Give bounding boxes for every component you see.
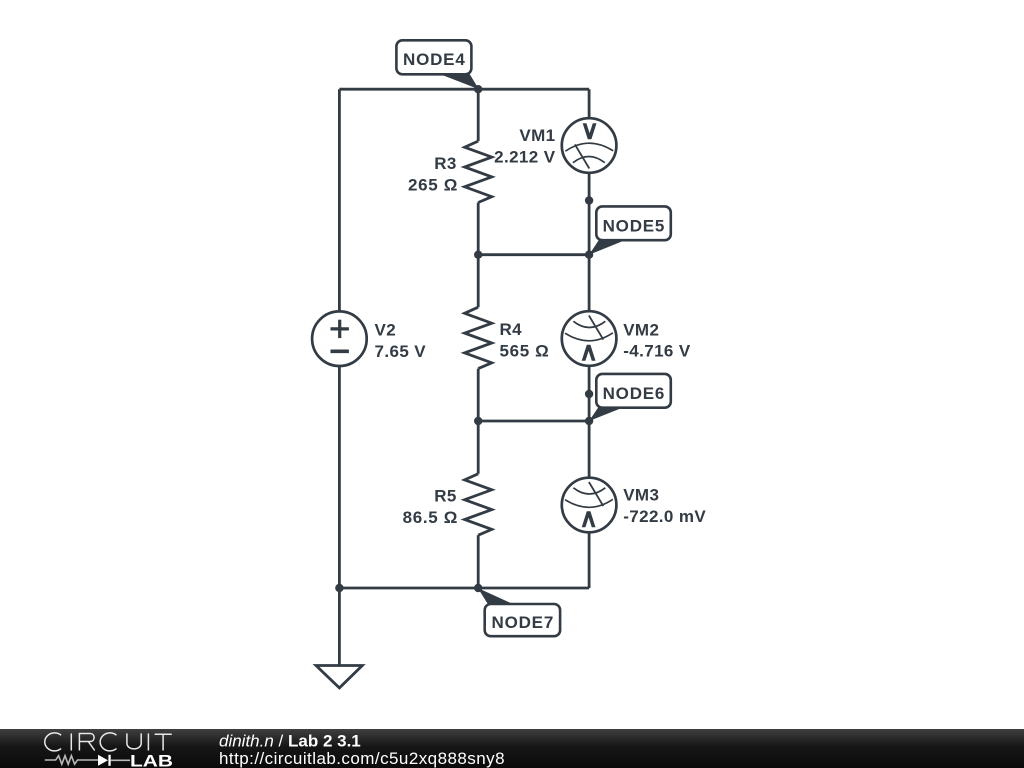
node label NODE7 [478, 588, 560, 636]
wire resistor column bottom segment [477, 535, 480, 588]
voltmeter VM3 [562, 478, 707, 533]
voltage source V2 [312, 311, 426, 366]
svg-text:NODE7: NODE7 [492, 613, 555, 632]
node label NODE4 [396, 40, 479, 89]
svg-text:VM2: VM2 [623, 320, 659, 339]
wire resistor column lower segment [477, 369, 480, 474]
junction dot NODE7 left [335, 584, 343, 592]
svg-text:86.5 Ω: 86.5 Ω [403, 508, 458, 527]
svg-text:2.212 V: 2.212 V [494, 147, 556, 166]
svg-text:V2: V2 [375, 321, 397, 340]
svg-text:265 Ω: 265 Ω [408, 175, 458, 194]
svg-text:R5: R5 [434, 487, 457, 506]
svg-text:http://circuitlab.com/c5u2xq88: http://circuitlab.com/c5u2xq888sny8 [219, 749, 505, 768]
svg-text:-4.716 V: -4.716 V [623, 342, 691, 361]
CircuitLab logo resistor-diode glyph [45, 755, 130, 766]
node label NODE5 [589, 206, 671, 254]
svg-text:-722.0 mV: -722.0 mV [623, 507, 706, 526]
resistor R4 [465, 307, 550, 368]
svg-text:VM1: VM1 [519, 126, 555, 145]
CircuitLab logo CIRCUIT text [45, 733, 172, 751]
svg-text:VM3: VM3 [623, 485, 659, 504]
wire top horizontal NODE4 [339, 88, 589, 91]
junction dot NODE5 right [585, 251, 593, 259]
node label NODE6 [589, 374, 671, 421]
svg-text:R4: R4 [500, 320, 523, 339]
junction dot NODE6 left [474, 417, 482, 425]
wire resistor column middle segment [477, 203, 480, 308]
svg-text:NODE6: NODE6 [603, 384, 666, 403]
wire resistor column upper segment [477, 89, 480, 141]
footer bar [0, 729, 1024, 768]
svg-text:565 Ω: 565 Ω [500, 342, 550, 361]
svg-text:NODE5: NODE5 [603, 216, 666, 235]
resistor R5 [403, 474, 492, 535]
wire NODE6 horizontal [478, 420, 589, 423]
junction dot NODE7 mid [474, 584, 482, 592]
svg-text:7.65 V: 7.65 V [375, 342, 427, 361]
junction dot NODE6 right [585, 417, 593, 425]
junction dot NODE5 left [474, 251, 482, 259]
resistor R3 [408, 141, 492, 202]
ground [316, 666, 362, 688]
voltmeter VM1 [494, 118, 616, 173]
junction dot below VM2 [585, 390, 593, 398]
voltmeter VM2 [562, 311, 691, 366]
svg-text:NODE4: NODE4 [403, 50, 466, 69]
wire NODE5 horizontal [478, 253, 589, 256]
junction dot below VM1 [585, 196, 593, 204]
wire NODE7 bottom horizontal [339, 587, 589, 590]
wire right vertical voltmeter branch [588, 89, 591, 588]
wire left vertical V2 branch [338, 89, 341, 665]
junction dot NODE4 [474, 85, 482, 93]
svg-text:LAB: LAB [130, 751, 173, 768]
svg-text:R3: R3 [434, 154, 457, 173]
